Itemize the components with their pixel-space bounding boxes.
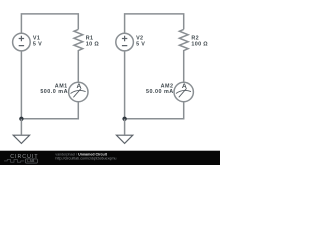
- node junction right: [122, 117, 126, 121]
- svg-text:V1: V1: [33, 35, 40, 41]
- svg-text:R2: R2: [191, 35, 199, 41]
- svg-text:A: A: [77, 83, 82, 90]
- voltage source V1: [13, 33, 31, 51]
- wire: V2 bottom to ground junction: [124, 51, 126, 119]
- ammeter AM2: [174, 82, 193, 101]
- svg-text:A: A: [182, 83, 187, 90]
- svg-text:V2: V2: [136, 35, 143, 41]
- wire: R2 to AM2: [183, 52, 185, 82]
- wire: AM1 bottom to bottom rail: [21, 102, 78, 119]
- svg-text:LAB: LAB: [27, 159, 35, 163]
- resistor R2: [179, 29, 188, 52]
- svg-text:http://circuitlab.com/c/dq92e6: http://circuitlab.com/c/dq92e6uexqmu: [55, 157, 116, 161]
- node junction left: [19, 117, 23, 121]
- ground right: [116, 135, 132, 143]
- svg-text:10 Ω: 10 Ω: [86, 42, 100, 48]
- voltage source V2: [116, 33, 134, 51]
- wire: V1 bottom to ground junction: [20, 51, 22, 119]
- ground left: [13, 135, 29, 143]
- wire: AM2 bottom to bottom rail: [125, 102, 184, 119]
- svg-text:50.00 mA: 50.00 mA: [146, 89, 174, 95]
- logo squarewave: [4, 160, 24, 163]
- ammeter AM1: [69, 82, 88, 101]
- wire: top loop right circuit: [125, 14, 184, 33]
- svg-text:R1: R1: [86, 35, 94, 41]
- resistor R1: [74, 29, 83, 52]
- wire: junction to ground: [20, 119, 22, 135]
- logo LAB box: [25, 159, 37, 163]
- svg-text:5 V: 5 V: [33, 42, 42, 48]
- svg-text:5 V: 5 V: [136, 42, 145, 48]
- svg-text:500.0 mA: 500.0 mA: [40, 89, 68, 95]
- wire: top loop left circuit: [21, 14, 78, 33]
- wire: R1 to AM1: [77, 52, 79, 82]
- wire: junction to ground: [124, 119, 126, 135]
- svg-text:100 Ω: 100 Ω: [191, 42, 208, 48]
